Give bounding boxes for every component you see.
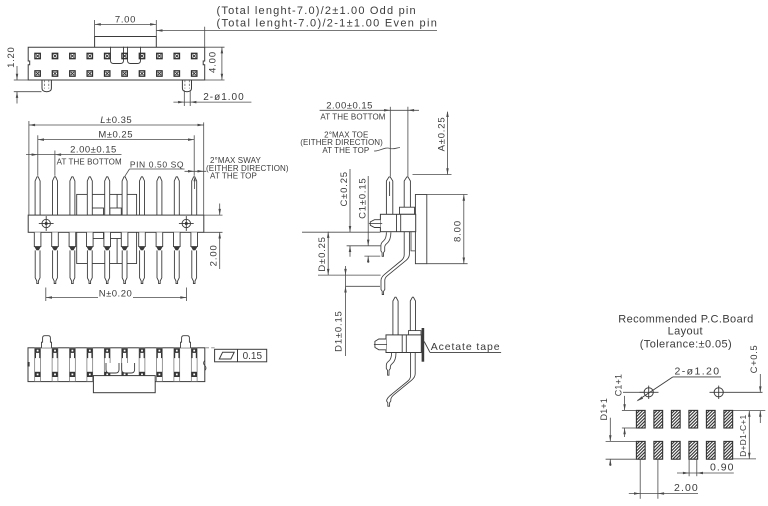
acetate view: left pin — [393, 297, 398, 335]
dimension 0.90 pad width — [688, 459, 690, 476]
side view: right pin (lower row) — [404, 177, 410, 207]
extension line hole center left — [623, 391, 644, 393]
acetate view: short solder tail — [386, 353, 396, 376]
dimension 2.00 pad pitch — [639, 459, 641, 499]
dimension 2.00 body thickness (front view right) — [204, 214, 223, 216]
svg-text:Recommended P.C.Board: Recommended P.C.Board — [618, 313, 753, 325]
svg-text:0.90: 0.90 — [710, 462, 734, 474]
side view: left pin (upper row) — [386, 177, 392, 214]
flatness symbol parallelogram — [219, 352, 234, 359]
acetate tape strip — [422, 328, 425, 362]
dimension C1+1 — [622, 409, 637, 411]
formula note leader line — [156, 30, 437, 32]
dimension C±0.25 — [349, 169, 351, 232]
side view: long solder tail (lower row) — [381, 232, 409, 295]
acetate view: collar above body — [409, 331, 422, 335]
side view: collar above body — [400, 207, 415, 214]
svg-text:M±0.25: M±0.25 — [98, 130, 133, 141]
extension line pads row1 top right — [733, 410, 765, 412]
flatness feature control frame with leader dashes — [206, 347, 215, 349]
bottom view: center keying arches — [106, 363, 119, 373]
svg-text:AT THE BOTTOM: AT THE BOTTOM — [320, 113, 385, 122]
svg-text:D+D1-C+1: D+D1-C+1 — [738, 415, 748, 457]
svg-text:8.00: 8.00 — [453, 220, 464, 242]
svg-text:2.00±0.15: 2.00±0.15 — [326, 100, 373, 111]
dimension 4.00 body height — [205, 46, 225, 48]
side view: mating pin tip (hex, pointing left) — [370, 220, 380, 228]
bottom view: right peg (up) — [181, 336, 191, 348]
svg-text:D1+1: D1+1 — [599, 398, 609, 421]
svg-text:AT THE TOP: AT THE TOP — [322, 146, 369, 155]
bottom view: right edge squiggle — [204, 361, 207, 371]
svg-text:AT THE TOP: AT THE TOP — [210, 172, 257, 181]
top view: pin contacts grid (2 rows x 10) — [35, 53, 40, 58]
bottom view: pin slots (10) — [35, 348, 41, 382]
svg-text:0.15: 0.15 — [243, 351, 263, 362]
extension line body right edge — [204, 27, 206, 47]
top view: polarization tab — [95, 37, 157, 48]
front view: pins upper row (10 pins) — [35, 177, 40, 215]
bottom view: left edge notch — [27, 362, 29, 367]
svg-text:(Tolerance:±0.05): (Tolerance:±0.05) — [640, 338, 732, 350]
svg-text:2.00: 2.00 — [674, 482, 699, 494]
svg-text:1.20: 1.20 — [6, 47, 17, 68]
pcb hole left (target) — [640, 386, 659, 399]
acetate tape label and leader — [424, 342, 430, 353]
dimension 2-dia1.00 pegs — [183, 90, 185, 106]
dimension 1.20 peg length — [14, 79, 28, 81]
dimension D±0.25 — [327, 232, 329, 275]
svg-text:L±0.35: L±0.35 — [100, 115, 132, 126]
svg-text:Layout: Layout — [668, 325, 703, 337]
dimension A±0.25 — [447, 112, 449, 175]
top view: right mounting peg — [182, 80, 191, 92]
svg-text:C1+1: C1+1 — [614, 374, 624, 397]
svg-text:D1±0.15: D1±0.15 — [333, 310, 344, 351]
side view: short solder tail (upper row) — [381, 232, 391, 256]
svg-text:A±0.25: A±0.25 — [437, 117, 448, 152]
dimension M±0.25 pin span — [37, 135, 39, 176]
svg-text:C1±0.15: C1±0.15 — [357, 177, 368, 218]
pcb hole right (target) — [710, 386, 763, 399]
dimension 2.00±0.15 at the bottom (side view) — [320, 109, 419, 111]
svg-text:2.00: 2.00 — [208, 244, 219, 266]
front view: left peg target symbol — [39, 216, 54, 231]
top view: connector body outline — [28, 47, 205, 80]
dimension D+D1-C+1 — [748, 411, 750, 459]
bottom view: body outline — [28, 348, 205, 382]
front view: center tab inner lines — [90, 194, 92, 208]
svg-text:N±0.20: N±0.20 — [99, 288, 133, 299]
bottom view: left peg (up) — [42, 336, 52, 348]
side view: tall support 8.00 block — [415, 195, 426, 264]
top view: keying slot left — [111, 47, 124, 64]
svg-text:2-ø1.20: 2-ø1.20 — [675, 365, 721, 377]
side view: strip below body right — [411, 232, 415, 251]
toe direction squiggle — [374, 148, 400, 151]
acetate view: long solder tail — [387, 353, 416, 407]
dimension 2.00±0.15 pitch at bottom — [54, 151, 56, 176]
front view: insulator body bar — [28, 215, 204, 232]
side view: insulator body — [380, 214, 415, 231]
svg-text:C±0.25: C±0.25 — [339, 171, 350, 206]
bottom view: center tab below — [93, 376, 155, 393]
dimension L±0.35 overall length — [28, 121, 30, 215]
svg-text:7.00: 7.00 — [115, 14, 136, 25]
svg-text:4.00: 4.00 — [207, 51, 218, 73]
dimension N±0.20 peg span — [45, 288, 47, 302]
svg-text:C+0.5: C+0.5 — [749, 345, 760, 374]
side view: pin center extension lines — [389, 107, 391, 177]
top view: left mounting peg — [42, 80, 51, 92]
acetate view: right pin — [410, 297, 415, 330]
front view: center mating rectangle — [77, 194, 137, 263]
acetate view: mating pin tip (hex) — [375, 339, 386, 350]
dimension C1±0.15 — [367, 176, 369, 246]
dimension D1±0.15 — [345, 266, 347, 356]
top view: keying slot right — [128, 47, 141, 64]
svg-text:PIN 0.50 SQ: PIN 0.50 SQ — [130, 159, 184, 169]
svg-text:D±0.25: D±0.25 — [317, 236, 328, 271]
dimension 8.00 support height — [427, 194, 468, 196]
svg-text:AT THE BOTTOM: AT THE BOTTOM — [57, 158, 122, 167]
svg-text:Acetate tape: Acetate tape — [431, 341, 501, 353]
svg-text:2.00±0.15: 2.00±0.15 — [70, 145, 117, 156]
svg-text:(Total lenght-7.0)/2-1±1.00 Ev: (Total lenght-7.0)/2-1±1.00 Even pin — [217, 17, 439, 29]
svg-text:(Total lenght-7.0)/2±1.00 Odd: (Total lenght-7.0)/2±1.00 Odd pin — [217, 5, 417, 17]
dimension 7.00 tab width — [94, 20, 96, 37]
svg-text:2-ø1.00: 2-ø1.00 — [203, 92, 244, 103]
dimension C+0.5 — [759, 374, 761, 393]
sway envelope marker at pin 10 — [185, 170, 207, 172]
side view extension lines C/C1/D/D1 — [302, 231, 380, 233]
front view: pins lower row with collars and tips — [34, 232, 41, 246]
dimension D1+1 — [606, 440, 637, 442]
acetate view: insulator body — [386, 335, 421, 353]
